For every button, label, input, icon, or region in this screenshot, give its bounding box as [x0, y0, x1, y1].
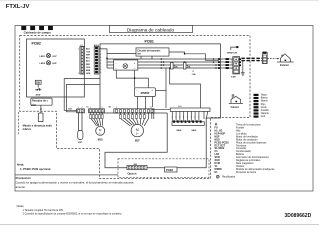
svg-text:Blanco: Blanco — [261, 98, 269, 100]
svg-text:Mando a distancia inalá: Mando a distancia inalá — [23, 123, 53, 127]
svg-text:3: 3 — [175, 117, 176, 119]
svg-text:H1P: H1P — [53, 56, 58, 58]
svg-text:Azul: Azul — [261, 115, 266, 118]
svg-text:GRN/YLW: GRN/YLW — [227, 52, 238, 54]
svg-text:12: 12 — [150, 107, 152, 109]
svg-text:1: 1 — [183, 117, 184, 119]
svg-text:YLW: YLW — [86, 51, 90, 53]
svg-text:Rojo: Rojo — [261, 104, 266, 106]
svg-text:PCB3: PCB3 — [166, 168, 173, 172]
svg-text:Opción: Opción — [128, 172, 137, 176]
svg-text:IPM00: IPM00 — [141, 91, 150, 95]
svg-text:Marrón: Marrón — [261, 100, 269, 103]
svg-text:3: 3 — [231, 68, 232, 70]
svg-text:2: 2 — [172, 117, 173, 119]
svg-text:M: M — [136, 128, 139, 132]
svg-text:Precaución: Precaución — [16, 176, 31, 180]
svg-text:PCB1: PCB1 — [145, 39, 154, 43]
svg-text:Receptor de s: Receptor de s — [32, 100, 48, 103]
svg-text:Amarillo: Amarillo — [261, 109, 270, 112]
svg-text:Zm: Zm — [174, 66, 178, 69]
svg-text:BLK: BLK — [86, 48, 91, 50]
svg-text:1: 1 — [231, 59, 232, 61]
svg-text:Cuando se apaga la alimentació: Cuando se apaga la alimentación y vuelve… — [16, 181, 134, 185]
svg-text:PCB2: PCB2 — [32, 42, 41, 46]
svg-text:amente.: amente. — [16, 185, 26, 189]
svg-text:Exterior: Exterior — [280, 64, 289, 67]
svg-text:LED1: LED1 — [40, 56, 46, 58]
svg-text:GRN: GRN — [86, 73, 91, 75]
svg-text:Rectificador: Rectificador — [222, 176, 235, 179]
svg-text:RED: RED — [86, 64, 91, 66]
svg-text:M1F: M1F — [135, 140, 140, 143]
svg-text:X1M: X1M — [231, 77, 236, 79]
svg-text:2 Consulte la especificación d: 2 Consulte la especificación de compra K… — [23, 212, 123, 215]
svg-text:1: 1 — [116, 107, 117, 109]
svg-text:1. PCB3: PCB opcional: 1. PCB3: PCB opcional — [20, 167, 51, 171]
svg-text:mbrico: mbrico — [23, 127, 32, 131]
svg-text:1: 1 — [78, 107, 79, 109]
svg-text:GRN: GRN — [254, 107, 259, 109]
svg-text:M1S: M1S — [98, 138, 103, 141]
svg-text:S801: S801 — [191, 130, 197, 132]
svg-text:Diagrama de cableado: Diagrama de cableado — [127, 27, 175, 32]
svg-text:2: 2 — [187, 117, 188, 119]
svg-text:Notas:: Notas: — [17, 204, 25, 208]
svg-text:BLU: BLU — [86, 58, 91, 60]
svg-text:R2T: R2T — [78, 142, 83, 144]
svg-text:Negro: Negro — [261, 94, 268, 97]
svg-text:H2P: H2P — [53, 63, 58, 65]
svg-text:Naranja: Naranja — [261, 112, 270, 115]
svg-text:Interior: Interior — [231, 106, 239, 109]
svg-text:5: 5 — [102, 107, 103, 109]
svg-text:Nota:: Nota: — [17, 162, 24, 166]
svg-text:ORG: ORG — [254, 113, 259, 115]
svg-text:1: 1 — [90, 107, 91, 109]
svg-text:S802: S802 — [176, 130, 182, 132]
svg-text:BRN: BRN — [86, 70, 91, 72]
svg-text:9: 9 — [78, 73, 79, 75]
svg-text:Protector de tierra: Protector de tierra — [236, 171, 257, 174]
svg-text:Verde: Verde — [261, 106, 268, 109]
svg-text:3D089662D: 3D089662D — [285, 213, 312, 219]
svg-text:1: 1 — [78, 48, 79, 50]
svg-text:2: 2 — [179, 117, 180, 119]
svg-text:YLW: YLW — [254, 110, 258, 112]
svg-text:Cableado de campo: Cableado de campo — [24, 31, 52, 35]
svg-text:BLK: BLK — [86, 61, 91, 63]
svg-text:FTXL-JV: FTXL-JV — [6, 4, 30, 10]
svg-text:2: 2 — [194, 117, 195, 119]
svg-text:ión: ión — [137, 53, 141, 56]
svg-text:LED2: LED2 — [40, 63, 46, 65]
svg-text:ORG: ORG — [86, 67, 91, 69]
svg-text:3: 3 — [191, 117, 192, 119]
svg-text:2: 2 — [81, 107, 82, 109]
svg-text:Zm: Zm — [187, 66, 191, 69]
svg-text:2: 2 — [231, 64, 232, 66]
svg-text:1: 1 — [198, 117, 199, 119]
svg-text:eñal: eñal — [31, 104, 36, 107]
